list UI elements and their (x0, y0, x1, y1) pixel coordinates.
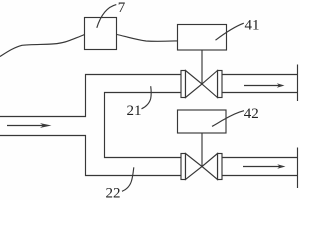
svg-text:21: 21 (127, 103, 142, 119)
svg-text:7: 7 (118, 0, 126, 16)
svg-text:22: 22 (106, 185, 121, 200)
svg-text:42: 42 (244, 106, 259, 122)
svg-text:41: 41 (245, 18, 260, 34)
